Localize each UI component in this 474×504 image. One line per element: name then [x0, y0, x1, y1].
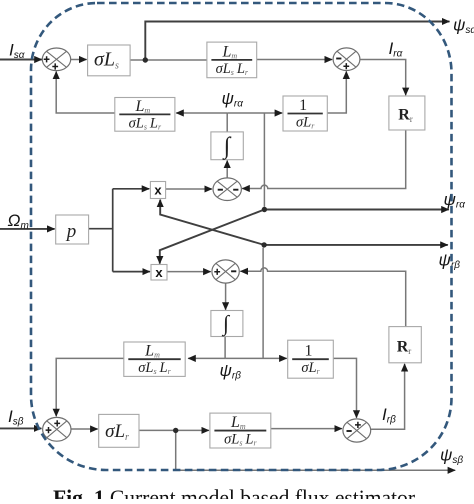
svg-text:1: 1 [305, 343, 313, 360]
svg-text:Fig. 1 Current model based flu: Fig. 1 Current model based flux estimato… [53, 485, 416, 499]
svg-text:p: p [65, 221, 77, 242]
svg-text:x: x [155, 265, 163, 280]
svg-text:∫: ∫ [222, 134, 232, 161]
svg-text:1: 1 [299, 97, 307, 114]
svg-text:x: x [154, 183, 162, 198]
